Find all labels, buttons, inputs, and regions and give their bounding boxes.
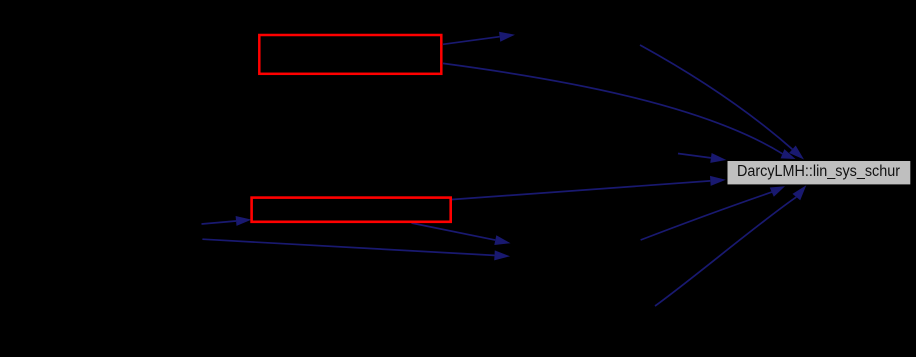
svg-text:DarcyLMH::lin_sys_schur: DarcyLMH::lin_sys_schur — [737, 163, 900, 180]
